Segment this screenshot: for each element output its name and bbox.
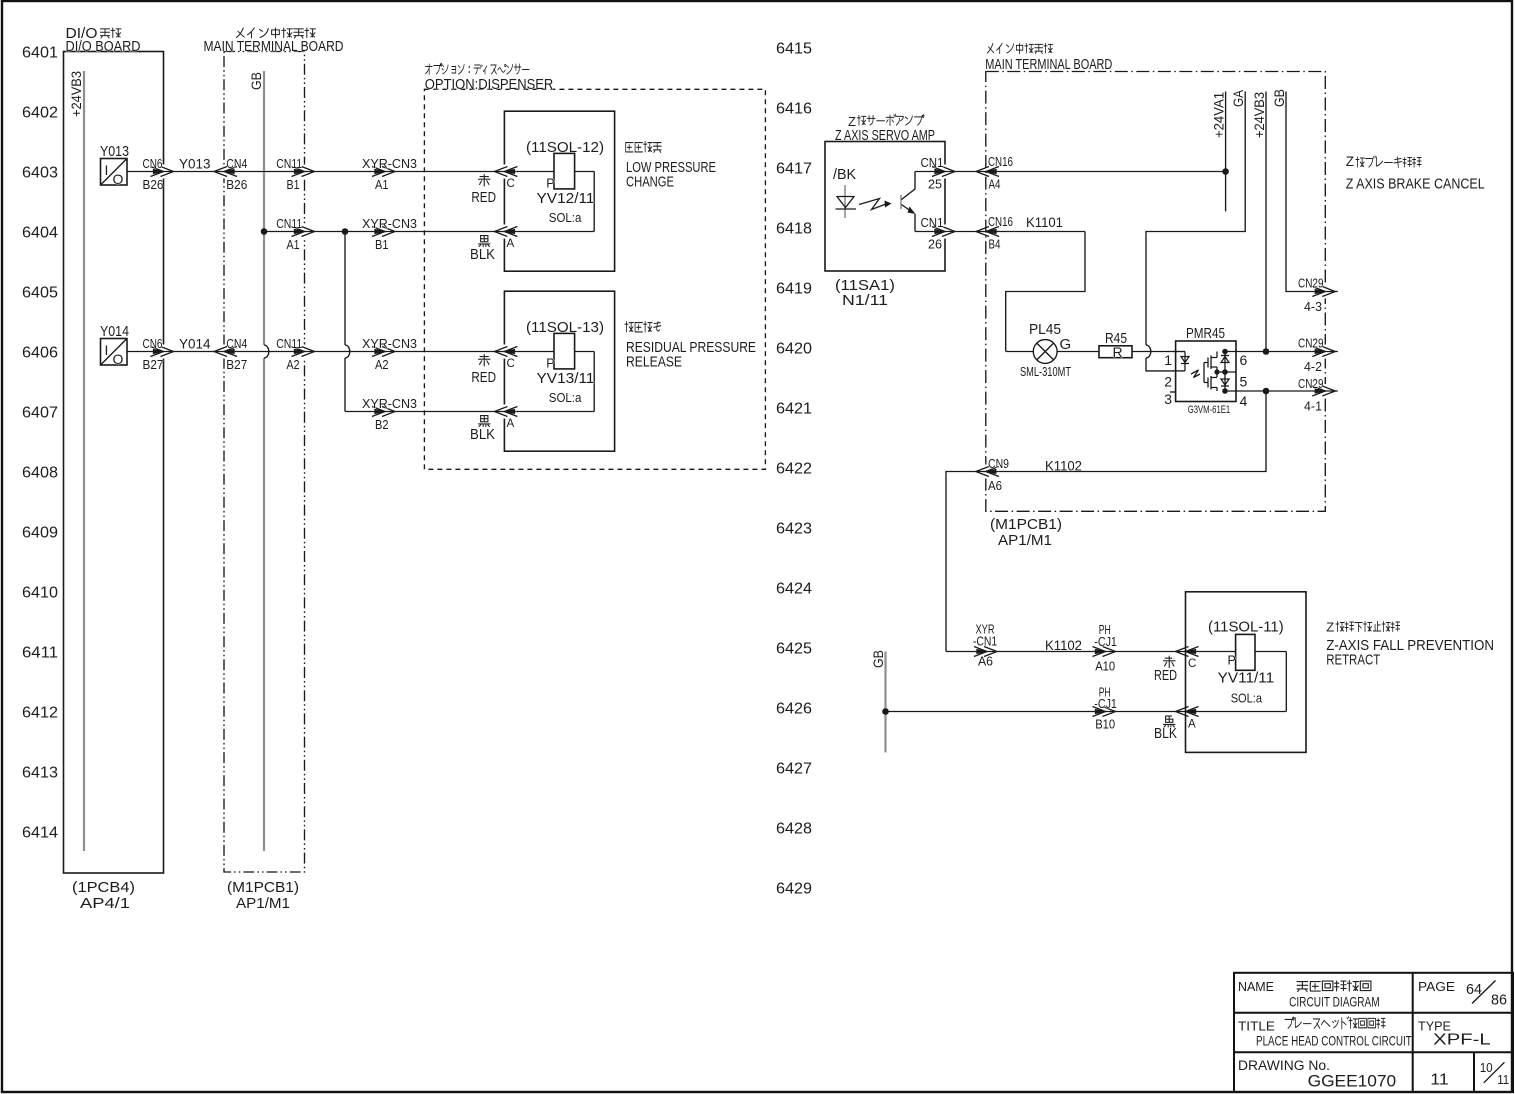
svg-text:GB: GB: [870, 650, 886, 668]
GB net line: [1286, 92, 1325, 292]
svg-text:6415: 6415: [776, 40, 812, 57]
MAIN TERMINAL BOARD right box dash-dot: [986, 72, 1326, 512]
arrow PH-CJ1/A10: [1093, 647, 1116, 657]
svg-text:RED: RED: [471, 369, 496, 386]
svg-text:+24VA1: +24VA1: [1211, 92, 1227, 138]
arrow CN16/B4: [973, 225, 999, 239]
connector XYR-CN3/B1 arrow: [372, 227, 395, 237]
svg-text:6427: 6427: [776, 760, 812, 777]
svg-text:CN4: CN4: [226, 157, 247, 171]
arrow CN9/A6: [972, 465, 998, 479]
svg-text:(1PCB4): (1PCB4): [72, 879, 135, 896]
svg-text:-CN1: -CN1: [973, 635, 997, 649]
PMR45 internal diodes: [1224, 352, 1226, 392]
svg-text:6410: 6410: [22, 584, 58, 601]
svg-text:GA: GA: [1230, 89, 1246, 107]
svg-text:SOL:a: SOL:a: [1231, 692, 1262, 706]
arrow XYR-CN1/A6: [974, 647, 997, 657]
branch hop over 6406 wire: [345, 345, 350, 358]
svg-text:6424: 6424: [776, 580, 812, 597]
wire CN1-26 to CN16-B4: [915, 231, 1085, 233]
connector XYR-CN3/A1 arrow: [372, 167, 395, 177]
svg-text:11: 11: [1430, 1071, 1449, 1088]
svg-text:SOL:a: SOL:a: [549, 391, 582, 405]
svg-text:RETRACT: RETRACT: [1326, 652, 1380, 669]
svg-text:CN1: CN1: [921, 216, 944, 230]
function label LOW PRESSURE CHANGE: [626, 142, 662, 153]
GA hop over R45 wire: [1146, 345, 1151, 358]
svg-text:CN29: CN29: [1298, 277, 1324, 291]
svg-text:6405: 6405: [22, 284, 58, 301]
svg-text:3: 3: [1164, 391, 1172, 407]
svg-text:1: 1: [1164, 352, 1172, 368]
PMR45 internal MOSFETs: [1204, 352, 1217, 392]
svg-text:OPTION:DISPENSER: OPTION:DISPENSER: [425, 76, 554, 93]
pin3 stub: [1170, 391, 1176, 393]
svg-text:26: 26: [928, 238, 942, 252]
svg-text:YV12/11: YV12/11: [537, 190, 595, 207]
svg-text:AP4/1: AP4/1: [80, 895, 130, 912]
svg-text:6429: 6429: [776, 880, 812, 897]
svg-text:SOL:a: SOL:a: [549, 211, 582, 225]
svg-text:B27: B27: [226, 358, 247, 372]
solenoid YV13 loop riser: [593, 352, 595, 412]
arrow A (11SOL-12): [491, 225, 517, 239]
arrow A (11SOL-13): [491, 405, 517, 419]
connector CN6/B26 arrow: [150, 165, 176, 179]
svg-text:11: 11: [1497, 1072, 1509, 1087]
svg-text:6412: 6412: [22, 704, 58, 721]
wire pin4 to CN29/4-1: [1225, 390, 1325, 392]
svg-text:6: 6: [1240, 352, 1248, 368]
svg-text:4-1: 4-1: [1304, 400, 1322, 414]
junction GB 6404: [261, 228, 268, 235]
wire row 6426: [886, 711, 1287, 713]
wire pin6 to CN29/4-2: [1225, 351, 1325, 353]
GA net line: [1146, 92, 1245, 346]
svg-text:6425: 6425: [776, 640, 812, 657]
wire color aka/RED: [479, 175, 490, 186]
function label RESIDUAL PRESSURE RELEASE: [625, 322, 661, 332]
svg-text:CN16: CN16: [988, 155, 1013, 169]
svg-text:6417: 6417: [776, 160, 812, 177]
svg-text:P: P: [546, 177, 554, 191]
svg-text:Y014: Y014: [179, 337, 211, 352]
wire row 6407: [345, 411, 594, 413]
DI/O board (1PCB4) box: [64, 52, 164, 874]
label MAIN TERMINAL BOARD: [236, 28, 315, 38]
svg-text:C: C: [507, 178, 515, 190]
svg-text:Y013: Y013: [179, 157, 211, 172]
opto transistor: [900, 195, 902, 209]
wire row 6425 K1102: [946, 651, 1236, 653]
svg-text:A4: A4: [989, 178, 1001, 192]
wire color kuro/BLK: [479, 416, 490, 427]
svg-text:6406: 6406: [22, 344, 58, 361]
svg-text:6402: 6402: [22, 104, 58, 121]
svg-text:2: 2: [1164, 374, 1172, 390]
svg-text:4-2: 4-2: [1304, 360, 1322, 374]
svg-text:6404: 6404: [22, 224, 58, 241]
svg-text:GGEE1070: GGEE1070: [1308, 1072, 1397, 1090]
svg-text:CIRCUIT DIAGRAM: CIRCUIT DIAGRAM: [1289, 995, 1380, 1010]
svg-text:B26: B26: [226, 178, 247, 192]
svg-text:K1101: K1101: [1026, 215, 1063, 230]
svg-text:CN9: CN9: [988, 457, 1009, 471]
+24VB3 net line: [1265, 92, 1267, 352]
svg-text:A: A: [507, 418, 515, 430]
connector CN11/A1 arrow: [291, 225, 317, 239]
svg-text:25: 25: [928, 178, 942, 192]
svg-text:5: 5: [1240, 374, 1248, 390]
svg-text:6413: 6413: [22, 764, 58, 781]
arrow PH-CJ1/B10: [1093, 707, 1116, 717]
svg-text:A6: A6: [988, 479, 1002, 493]
svg-text:CN11: CN11: [276, 217, 302, 231]
wire PL45 to R45: [1057, 351, 1099, 353]
svg-text:K1102: K1102: [1045, 638, 1082, 653]
svg-text:C: C: [507, 358, 515, 370]
svg-text:B2: B2: [375, 418, 389, 432]
MAIN TERMINAL BOARD (M1PCB1) box dash-dot-dot: [224, 52, 305, 873]
title block table: [1234, 973, 1513, 1092]
svg-text:AP1/M1: AP1/M1: [236, 895, 290, 912]
svg-text:+24VB3: +24VB3: [68, 71, 84, 117]
svg-text:I: I: [105, 162, 109, 178]
svg-text:6423: 6423: [776, 520, 812, 537]
solenoid YV12 loop riser: [593, 172, 595, 232]
solenoid 11SOL-12 box: [504, 111, 614, 271]
connector XYR-CN3/B2 arrow: [372, 407, 395, 417]
svg-text:Z: Z: [1326, 620, 1334, 635]
svg-text:XYR-CN3: XYR-CN3: [362, 157, 417, 171]
svg-text:(M1PCB1): (M1PCB1): [990, 516, 1062, 533]
svg-text:A: A: [1188, 719, 1196, 731]
arrow CN29/4-3: [1312, 285, 1338, 299]
svg-text:YV13/11: YV13/11: [537, 370, 595, 387]
svg-text:SML-310MT: SML-310MT: [1020, 365, 1071, 379]
svg-text:CN6: CN6: [143, 337, 163, 351]
PMR45 internal opto arrow: [1191, 370, 1200, 378]
svg-text:6426: 6426: [776, 700, 812, 717]
opto arrow: [859, 199, 886, 210]
svg-text:MAIN TERMINAL BOARD: MAIN TERMINAL BOARD: [204, 38, 344, 55]
arrow C (11SOL-11): [1172, 645, 1198, 659]
solenoid 11SOL-13 box: [504, 291, 614, 451]
svg-text:86: 86: [1491, 992, 1507, 1009]
svg-text:P: P: [546, 357, 554, 371]
svg-text:6414: 6414: [22, 824, 58, 841]
svg-text:G3VM-61E1: G3VM-61E1: [1188, 404, 1231, 416]
svg-text:DRAWING No.: DRAWING No.: [1238, 1058, 1330, 1073]
solenoid YV11 loop riser: [1255, 651, 1286, 653]
svg-text:PAGE: PAGE: [1418, 979, 1455, 994]
resistor R45: [1099, 346, 1132, 358]
svg-text:Y013: Y013: [100, 143, 129, 160]
svg-text:RED: RED: [471, 189, 496, 206]
svg-text:O: O: [113, 351, 124, 367]
arrow C (11SOL-13): [491, 345, 517, 359]
connector CN4/B27 arrow: [211, 345, 237, 359]
PMR45 internal LED: [1176, 351, 1185, 353]
lamp PL45: [1006, 351, 1034, 353]
arrow CN1/26: [932, 225, 958, 239]
svg-text:(11SOL-11): (11SOL-11): [1208, 618, 1284, 635]
svg-text:CN16: CN16: [988, 215, 1013, 229]
connector CN4/B26 arrow: [211, 165, 237, 179]
svg-text:6420: 6420: [776, 340, 812, 357]
svg-text:Z AXIS BRAKE CANCEL: Z AXIS BRAKE CANCEL: [1346, 175, 1485, 192]
svg-text:B1: B1: [375, 238, 389, 252]
svg-text:B27: B27: [143, 358, 164, 372]
svg-text:CN29: CN29: [1298, 337, 1324, 351]
svg-text:A2: A2: [287, 358, 300, 372]
svg-text:6411: 6411: [22, 644, 58, 661]
pin5 stub: [1217, 371, 1236, 373]
svg-text:NAME: NAME: [1238, 979, 1274, 994]
svg-text:6418: 6418: [776, 220, 812, 237]
svg-text:RED: RED: [1154, 667, 1177, 684]
svg-text:DI/O BOARD: DI/O BOARD: [66, 38, 141, 55]
coil YV11/11: [1236, 634, 1255, 670]
svg-text:PMR45: PMR45: [1186, 325, 1225, 342]
wire color aka/RED: [1164, 656, 1175, 667]
branch wire 6404 to 6407: [344, 232, 346, 346]
svg-text:-CJ1: -CJ1: [1094, 635, 1117, 649]
svg-text:GB: GB: [1271, 89, 1287, 107]
svg-text:6422: 6422: [776, 460, 812, 477]
svg-text:6408: 6408: [22, 464, 58, 481]
svg-text:10: 10: [1480, 1060, 1493, 1075]
svg-text:CN4: CN4: [226, 337, 247, 351]
svg-text:B10: B10: [1095, 718, 1115, 732]
wire row 6403 Y013: [127, 171, 554, 173]
svg-text:XPF-L: XPF-L: [1433, 1031, 1491, 1048]
svg-text:A1: A1: [287, 238, 300, 252]
svg-text:G: G: [1060, 336, 1072, 353]
connector CN11/A2 arrow: [291, 345, 317, 359]
connector CN6/B27 arrow: [150, 345, 176, 359]
svg-text:BLK: BLK: [1154, 725, 1177, 742]
solenoid 11SOL-11 box: [1186, 592, 1307, 753]
label MAIN TERMINAL BOARD: [987, 43, 1052, 53]
svg-text:6401: 6401: [22, 44, 58, 61]
svg-text:6407: 6407: [22, 404, 58, 421]
svg-text:(M1PCB1): (M1PCB1): [227, 879, 299, 896]
svg-text:CN11: CN11: [276, 157, 302, 171]
coil YV12/11: [554, 153, 575, 189]
wire row 6404: [264, 231, 594, 233]
OPTION:DISPENSER dashed box: [424, 89, 765, 469]
wire color kuro/BLK: [479, 236, 490, 247]
svg-text:TITLE: TITLE: [1238, 1019, 1275, 1034]
svg-text:/BK: /BK: [833, 166, 856, 183]
svg-text:A: A: [507, 238, 515, 250]
svg-text:R: R: [1113, 344, 1123, 360]
junction GB 6426: [882, 708, 889, 715]
+24VB3 power line: [83, 71, 85, 851]
GB net line bottom: [884, 652, 886, 753]
svg-text:I: I: [105, 342, 109, 358]
K1102 wire from pin4 down to CN9: [946, 391, 1266, 652]
svg-text:Z: Z: [1346, 154, 1354, 169]
svg-text:CN6: CN6: [143, 157, 163, 171]
arrow A (11SOL-11): [1172, 705, 1198, 719]
wire R45 to PMR45 pin1: [1132, 351, 1176, 353]
K1101 wire path to PL45: [1006, 232, 1085, 352]
svg-text:Y014: Y014: [100, 323, 129, 340]
svg-text:XYR-CN3: XYR-CN3: [362, 397, 417, 411]
svg-text:B1: B1: [287, 178, 300, 192]
svg-text:6428: 6428: [776, 820, 812, 837]
svg-text:YV11/11: YV11/11: [1218, 670, 1275, 687]
svg-text:XYR-CN3: XYR-CN3: [362, 217, 417, 231]
opto LED diode: [844, 185, 846, 218]
svg-text:A6: A6: [978, 655, 993, 669]
svg-text:CN1: CN1: [921, 156, 944, 170]
svg-text:BLK: BLK: [470, 426, 495, 443]
junction branch 6404: [342, 228, 349, 235]
coil YV13/11: [554, 333, 575, 369]
svg-text:CN11: CN11: [276, 337, 302, 351]
arrow C (11SOL-12): [491, 165, 517, 179]
svg-text:6403: 6403: [22, 164, 58, 181]
GB net line: [263, 71, 265, 345]
svg-text:B4: B4: [989, 238, 1001, 252]
svg-text:O: O: [113, 171, 124, 187]
svg-text:A10: A10: [1095, 659, 1115, 673]
svg-text:AP1/M1: AP1/M1: [998, 532, 1052, 549]
svg-text:6409: 6409: [22, 524, 58, 541]
svg-text:6421: 6421: [776, 400, 812, 417]
svg-text:CN29: CN29: [1298, 377, 1324, 391]
+24VA1 net line: [1225, 92, 1227, 212]
svg-text:A2: A2: [375, 358, 389, 372]
wire color kuro/BLK: [1164, 716, 1175, 727]
svg-text:P: P: [1228, 653, 1236, 667]
svg-text:PL45: PL45: [1029, 321, 1061, 338]
svg-text:RELEASE: RELEASE: [626, 353, 682, 370]
connector CN11/B1 arrow: [291, 165, 317, 179]
svg-text:N1/11: N1/11: [842, 292, 888, 309]
svg-text:6416: 6416: [776, 100, 812, 117]
svg-text:XYR-CN3: XYR-CN3: [362, 337, 417, 351]
svg-text:PLACE HEAD CONTROL CIRCUIT: PLACE HEAD CONTROL CIRCUIT: [1256, 1033, 1412, 1048]
svg-text:Z AXIS SERVO AMP: Z AXIS SERVO AMP: [835, 127, 935, 144]
svg-text:C: C: [1188, 658, 1196, 670]
svg-text:GB: GB: [248, 72, 264, 90]
wire color aka/RED: [479, 355, 490, 366]
svg-text:+24VB3: +24VB3: [1251, 92, 1267, 138]
svg-text:4-3: 4-3: [1304, 300, 1322, 314]
Z AXIS SERVO AMP box: [825, 142, 945, 272]
svg-text:MAIN TERMINAL BOARD: MAIN TERMINAL BOARD: [985, 56, 1112, 73]
wire CN1-25 to CN16-A4: [915, 171, 1226, 173]
svg-text:6419: 6419: [776, 280, 812, 297]
svg-text:BLK: BLK: [470, 246, 495, 263]
svg-text:A1: A1: [375, 178, 389, 192]
arrow CN29/4-1: [1312, 384, 1338, 398]
wire row 6406 Y014: [127, 351, 554, 353]
connector XYR-CN3/A2 arrow: [372, 347, 395, 357]
arrow CN1/25: [932, 165, 958, 179]
arrow CN29/4-2: [1312, 345, 1338, 359]
GB line hop over 6406 wire: [264, 345, 269, 358]
relay PMR45 box: [1176, 341, 1236, 402]
svg-text:K1102: K1102: [1045, 459, 1082, 474]
arrow CN16/A4: [973, 165, 999, 179]
svg-text:-CJ1: -CJ1: [1094, 697, 1117, 711]
svg-text:B26: B26: [143, 178, 164, 192]
label OPTION:DISPENSER: [425, 63, 529, 74]
svg-text:CHANGE: CHANGE: [626, 173, 674, 190]
svg-text:4: 4: [1240, 393, 1248, 409]
